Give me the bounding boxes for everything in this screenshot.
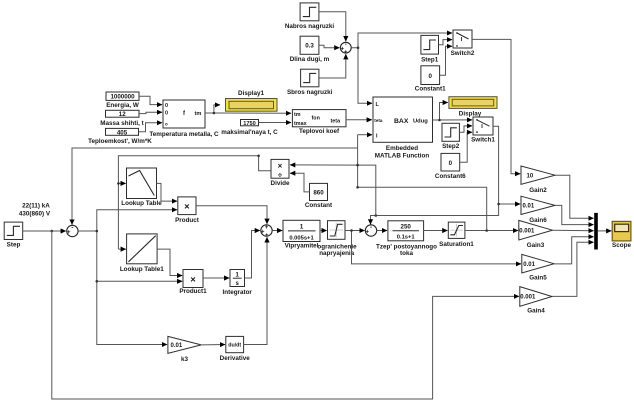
wire Gain5 to Mux (554, 237, 594, 264)
svg-text:Constant1: Constant1 (415, 85, 446, 92)
gain Gain4 (520, 287, 552, 315)
svg-text:0.001: 0.001 (520, 295, 536, 301)
svg-text:0: 0 (449, 160, 453, 167)
gain Gain3 (519, 220, 553, 248)
svg-text:Gain5: Gain5 (529, 274, 547, 281)
wire current feedback net (358, 135, 487, 231)
subsystem BAX Embedded MATLAB Function (373, 97, 433, 160)
svg-text:Derivative: Derivative (220, 355, 251, 362)
wire Gain6 to Mux (555, 205, 594, 224)
svg-text:Step2: Step2 (442, 143, 460, 150)
wire 12 to Temperatura in2 (139, 112, 162, 113)
wire Gain2 to Mux (555, 175, 594, 218)
subsystem Temperatura metalla, C (149, 100, 219, 138)
svg-text:teta: teta (374, 118, 383, 123)
svg-text:Gain3: Gain3 (527, 242, 545, 249)
svg-text:tm: tm (195, 111, 202, 117)
constant maksimal'naya 1750 (221, 120, 278, 137)
wire Sum1 out branches (78, 210, 177, 231)
mux Mux (594, 213, 598, 250)
gain Gain2 (521, 166, 555, 194)
wire ogranichenie to Sum3 and Gain5 branch (345, 230, 365, 232)
wire Step2 to Switch1 in2 (459, 126, 472, 132)
svg-text:-: - (370, 225, 372, 231)
svg-text:tm: tm (294, 112, 301, 118)
wire k3 to Derivative (201, 344, 225, 346)
svg-text:1000000: 1000000 (110, 94, 135, 101)
svg-text:du/dt: du/dt (228, 343, 241, 349)
svg-text:Lookup Table: Lookup Table (121, 200, 162, 207)
wire Gain4 to Mux (552, 242, 594, 296)
wire Energia to Temperatura in1 (139, 96, 162, 104)
wire teta to BAX (346, 119, 372, 121)
wire bottom feedback to Gain4 (52, 231, 519, 399)
svg-text:Display1: Display1 (238, 90, 264, 97)
svg-text:Lookup Table1: Lookup Table1 (120, 266, 164, 273)
svg-text:Product1: Product1 (179, 288, 207, 295)
svg-text:Energia, W: Energia, W (106, 102, 139, 109)
wire 1750 to Teplovoi tmax (259, 122, 292, 124)
svg-text:+: + (366, 229, 370, 235)
svg-text:+: + (265, 233, 269, 239)
step Step (4, 203, 51, 249)
svg-text:Switch1: Switch1 (471, 136, 495, 143)
svg-text:Sbros nagruzki: Sbros nagruzki (287, 89, 333, 96)
display Display (449, 97, 497, 118)
svg-text:Gain2: Gain2 (529, 187, 547, 194)
svg-text:860: 860 (313, 190, 324, 197)
svg-text:Massa shihti, t: Massa shihti, t (100, 120, 144, 127)
svg-text:0.01: 0.01 (171, 343, 183, 349)
switch Switch1 (471, 117, 495, 143)
wire Sum2 to Vipryamitel (272, 230, 282, 232)
constant Teploemkost 405 (88, 128, 152, 145)
svg-text:Gain6: Gain6 (529, 217, 547, 224)
svg-text:0: 0 (165, 103, 168, 109)
svg-text:0.3: 0.3 (305, 43, 314, 50)
svg-text:Gain4: Gain4 (527, 307, 545, 314)
svg-text:405: 405 (117, 129, 128, 136)
svg-text:0.01: 0.01 (523, 204, 535, 210)
gain Gain5 (522, 254, 554, 281)
display Display1 (226, 90, 278, 111)
wire Sum3 to Tzep (377, 230, 387, 232)
wire Step to Sum1 (23, 230, 66, 232)
transfer fcn Vipryamitel (283, 220, 320, 249)
subsystem Teplovoi koef (292, 110, 346, 135)
wire Step1 to Switch2 in2 (439, 40, 453, 45)
wire Gain3 to Mux (552, 229, 593, 232)
svg-text:Integrator: Integrator (223, 289, 253, 296)
svg-text:tmax: tmax (294, 121, 307, 127)
svg-text:Vipryamitel: Vipryamitel (285, 242, 319, 249)
svg-text:fon: fon (312, 116, 320, 122)
svg-text:Constant: Constant (305, 202, 333, 209)
transfer fcn Tzep' postoyannogo toka (376, 221, 437, 257)
product Product (175, 197, 200, 224)
svg-text:Scope: Scope (612, 242, 631, 249)
svg-text:Nabros nagruzki: Nabros nagruzki (285, 23, 335, 30)
svg-text:teta: teta (331, 119, 342, 125)
svg-text:1: 1 (300, 224, 304, 231)
integrator Integrator (223, 270, 253, 296)
saturation ogranichenie napryajenia (317, 221, 357, 257)
svg-text:1750: 1750 (243, 121, 255, 127)
svg-text:MATLAB Function: MATLAB Function (375, 153, 430, 160)
svg-text:-: - (345, 42, 347, 48)
wire 0.3 to Sum4 left (319, 45, 340, 47)
divide Divide (271, 159, 290, 186)
step Step2 (442, 123, 460, 150)
constant Energia 1000000 (106, 92, 139, 109)
sum junction Sum3 (365, 225, 376, 236)
svg-text:×: × (184, 202, 190, 213)
switch Switch2 (451, 30, 475, 57)
wire Lookup Table to Product in1 (157, 183, 178, 201)
svg-text:Udug: Udug (413, 119, 428, 125)
derivative Derivative (220, 336, 251, 361)
wire Product out to Sum2 top (196, 206, 267, 224)
svg-text:0.005s+1: 0.005s+1 (289, 235, 314, 241)
step Sbros nagruzki (287, 69, 333, 96)
svg-text:Teploemkost', W/m*K: Teploemkost', W/m*K (88, 138, 152, 145)
constant Dlina dugi 0.3 (290, 36, 330, 63)
svg-text:250: 250 (401, 224, 412, 231)
svg-text:0.01: 0.01 (523, 262, 535, 268)
wire Saturation1 out to Gain3 (465, 230, 518, 232)
svg-text:Divide: Divide (271, 180, 290, 187)
svg-text:k3: k3 (181, 356, 189, 363)
wire Divide out to Lookup Tables (118, 156, 271, 249)
svg-text:Dlina dugi, m: Dlina dugi, m (290, 56, 330, 63)
svg-text:÷: ÷ (278, 170, 283, 179)
svg-text:Constant6: Constant6 (435, 173, 466, 180)
svg-text:22(11) kA: 22(11) kA (22, 203, 50, 210)
svg-text:Switch2: Switch2 (451, 50, 475, 57)
sum junction Sum4 (340, 42, 351, 56)
svg-text:×: × (190, 275, 196, 286)
wire Constant1 to Switch2 in3 (440, 46, 452, 75)
svg-text:Step1: Step1 (421, 56, 439, 63)
wire Sum4 out to Switch2 and BAX L (351, 33, 452, 48)
svg-text:+: + (67, 230, 71, 236)
svg-text:10: 10 (527, 174, 534, 180)
wire Nabros to Sum4 top (319, 12, 346, 42)
wire Switch2 out to Gain2 (472, 39, 520, 173)
svg-text:12: 12 (119, 111, 126, 118)
wire Tzep to Saturation1 (424, 230, 448, 232)
svg-text:0.001: 0.001 (519, 229, 535, 235)
product Product1 (179, 270, 207, 295)
wire 405 to Temperatura in3 (139, 123, 163, 132)
svg-text:Temperatura metalla, C: Temperatura metalla, C (149, 131, 219, 138)
svg-text:BAX: BAX (394, 118, 409, 125)
svg-text:napryajenia: napryajenia (319, 250, 354, 257)
wire Integrator out to Sum2 left (245, 231, 260, 279)
constant Constant 860 (305, 183, 333, 208)
constant Massa shihti 12 (100, 110, 144, 127)
wire Udug out to Switch1 and Display (440, 103, 448, 121)
scope Scope (612, 221, 631, 248)
svg-text:Step: Step (7, 241, 21, 248)
svg-text:0.1s+1: 0.1s+1 (397, 235, 416, 241)
lookup table Lookup Table (121, 168, 162, 207)
wire Switch1 out to Gain6 and Sum3 top (376, 126, 499, 215)
wire Mux to Scope (598, 230, 612, 232)
lookup table Lookup Table1 (120, 234, 164, 273)
sum junction Sum1 (67, 225, 78, 236)
svg-text:Embedded: Embedded (386, 145, 418, 152)
gain Gain6 (521, 196, 555, 224)
svg-text:0: 0 (165, 111, 168, 117)
wire Product1 to Integrator (203, 277, 229, 279)
wire tm out to Teplovoi tm with branch to Display1 (205, 105, 220, 113)
svg-text:o: o (165, 121, 168, 126)
constant Constant1 (415, 66, 446, 93)
wire Sbros to Sum4 bottom (319, 54, 346, 78)
svg-text:Display: Display (459, 110, 482, 117)
step Step1 (421, 35, 439, 63)
wire 860 to Divide in2 (290, 173, 309, 192)
sum junction Sum2 (261, 225, 272, 239)
wire Vipryamitel to ogranichenie (320, 230, 327, 232)
wire feedback into Sum1 top (72, 148, 358, 225)
wire Lookup Table1 to Product1 in1 (157, 249, 182, 275)
svg-text:430(860) V: 430(860) V (19, 211, 51, 218)
svg-text:toka: toka (400, 250, 413, 257)
svg-text:Teplovoi koef: Teplovoi koef (299, 128, 340, 135)
svg-text:0: 0 (428, 73, 432, 80)
svg-text:+: + (265, 225, 269, 231)
wire Constant6 to Switch1 in3 (460, 132, 472, 162)
step Nabros nagruzki (285, 3, 335, 30)
constant Constant6 (435, 153, 466, 179)
svg-text:-: - (71, 226, 73, 232)
svg-text:×: × (278, 162, 283, 171)
svg-text:maksimal'naya t, C: maksimal'naya t, C (221, 129, 278, 136)
gain k3 (168, 336, 201, 362)
saturation Saturation1 (439, 222, 474, 248)
svg-text:Product: Product (175, 217, 200, 224)
svg-text:Saturation1: Saturation1 (439, 241, 474, 248)
wire Derivative out to Sum2 bottom (244, 237, 267, 344)
